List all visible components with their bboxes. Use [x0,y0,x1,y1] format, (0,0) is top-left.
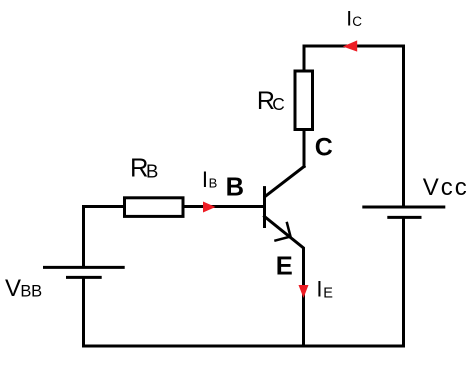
svg-text:B: B [226,173,244,201]
svg-text:C: C [272,94,284,114]
svg-text:Vcc: Vcc [423,174,469,201]
svg-text:C: C [315,133,333,161]
svg-text:C: C [352,14,362,29]
svg-text:E: E [323,285,333,301]
svg-text:B: B [209,176,218,191]
svg-text:V: V [5,275,21,302]
svg-text:I: I [316,277,322,302]
svg-text:B: B [146,160,158,181]
svg-text:B: B [31,283,42,301]
svg-text:E: E [276,252,293,280]
svg-text:B: B [20,283,31,301]
svg-text:I: I [202,167,208,192]
